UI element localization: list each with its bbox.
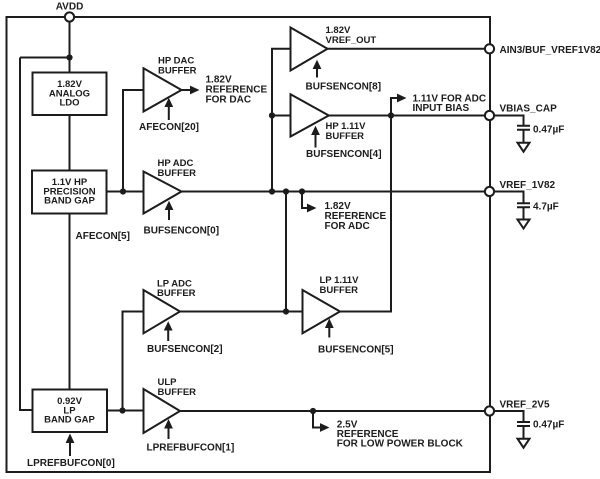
wire bus down to LP ADC output net [285,192,287,312]
svg-text:4.7µF: 4.7µF [533,202,559,213]
svg-text:BUFSENCON[8]: BUFSENCON[8] [306,82,382,93]
pin VREF_2V5 [485,400,550,416]
bandgap U3 0.92V LP BAND GAP [33,390,108,433]
svg-text:BUFSENCON[5]: BUFSENCON[5] [318,345,394,356]
label 2.5V REFERENCE FOR LOW POWER BLOCK [337,420,464,450]
junction LP ADC output bus [283,308,289,314]
svg-text:BAND GAP: BAND GAP [44,415,95,426]
svg-text:LPREFBUFCON[0]: LPREFBUFCON[0] [27,458,115,469]
svg-text:BUFFER: BUFFER [158,168,197,179]
control arrow BUFSENCON[8] [306,60,382,93]
op-amp buffer LP ADC BUFFER [144,278,196,333]
bandgap U2 1.1V HP PRECISION BAND GAP [32,171,107,214]
control arrow AFECON[20] [139,98,199,133]
junction VREF_1V82 ADC reference branch [299,188,305,194]
svg-text:BUFFER: BUFFER [158,65,197,76]
svg-text:FOR DAC: FOR DAC [206,95,252,106]
op-amp buffer LP 1.11V BUFFER [303,275,360,333]
svg-text:BUFSENCON[0]: BUFSENCON[0] [144,226,220,237]
wire VREF_2V5 net to pin [180,410,485,412]
label 1.82V REFERENCE FOR ADC [325,201,387,232]
svg-text:AFECON[20]: AFECON[20] [139,122,199,133]
capacitor C1 0.47uF [517,125,564,136]
svg-text:BUFFER: BUFFER [158,387,197,398]
svg-text:AIN3/BUF_VREF1V82: AIN3/BUF_VREF1V82 [500,45,600,56]
wire AVDD branch to left bus [20,57,70,59]
svg-text:0.47µF: 0.47µF [533,125,564,136]
svg-text:LDO: LDO [59,98,79,109]
wire VREF_1V82 to capacitor C2 [494,192,523,204]
svg-text:LPREFBUFCON[1]: LPREFBUFCON[1] [147,443,235,454]
wire branch arrow 1.82V reference for ADC [302,192,317,213]
wire capacitor C3 to ground [523,426,525,439]
ground below C1 [518,143,530,152]
svg-text:BUFSENCON[4]: BUFSENCON[4] [306,149,382,160]
ground below C3 [518,439,530,448]
svg-text:VREF_OUT: VREF_OUT [326,35,377,46]
ground below C2 [518,220,530,229]
wire capacitor C1 to ground [523,130,525,143]
wire LDO to HP band gap [69,115,71,171]
control arrow LPREFBUFCON[1] [147,419,235,454]
svg-text:AVDD: AVDD [56,2,84,13]
outer AFE block boundary [7,17,491,472]
svg-text:BUFFER: BUFFER [326,131,365,142]
junction VREF_1V82 to upper buffers bus [269,188,275,194]
svg-text:BUFFER: BUFFER [320,285,359,296]
wire LP ADC buffer output to LP 1.11V input [180,311,303,313]
svg-text:BAND GAP: BAND GAP [44,196,95,207]
junction LP band gap output [119,407,125,413]
svg-text:BUFSENCON[2]: BUFSENCON[2] [147,344,223,355]
junction band gap output [120,188,126,194]
label AFECON[5] [76,231,130,242]
wire branch arrow 1.11V for ADC input bias [391,94,407,116]
wire AVDD vertical feed [69,17,71,73]
junction VREF_1V82 to LP bus [283,188,289,194]
svg-text:BUFFER: BUFFER [157,288,196,299]
svg-text:0.47µF: 0.47µF [533,420,564,431]
op-amp buffer HP ADC BUFFER [144,158,197,214]
capacitor C2 4.7uF [517,202,559,213]
wire bus up to VREF_OUT buffer [272,49,291,192]
junction 2.5V reference branch [310,408,316,414]
wire HP band gap down to LP band gap [69,214,71,390]
wire branch arrow 2.5V reference for low power block [313,411,330,432]
label 1.11V FOR ADC INPUT BIAS [413,93,487,114]
control arrow BUFSENCON[5] [318,318,394,355]
junction bus to HP 1.11V buffer input [269,112,275,118]
wire bus to HP DAC buffer input [123,90,144,192]
control arrow BUFSENCON[2] [147,321,223,355]
svg-text:INPUT BIAS: INPUT BIAS [413,103,470,114]
wire bus down to LP 1.11V buffer output [340,116,391,312]
junction AVDD branch [66,54,72,60]
svg-text:VREF_1V82: VREF_1V82 [500,180,556,191]
svg-text:FOR LOW POWER BLOCK: FOR LOW POWER BLOCK [337,439,464,450]
pin AIN3/BUF_VREF1V82 [485,44,600,56]
control arrow BUFSENCON[4] [306,126,382,160]
svg-text:VREF_2V5: VREF_2V5 [500,400,550,411]
wire VBIAS net to pin [329,115,485,117]
wire HP band gap output to HP ADC buffer [106,191,144,193]
control arrow LPREFBUFCON[0] [27,434,115,470]
pin AVDD [56,2,84,22]
control arrow BUFSENCON[0] [144,201,220,237]
pin VREF_1V82 [485,180,556,196]
op-amp buffer HP DAC BUFFER [144,56,197,112]
op-amp buffer HP 1.11V BUFFER [291,94,367,142]
wire VBIAS_CAP to capacitor C1 [494,116,523,126]
svg-text:FOR ADC: FOR ADC [325,221,370,232]
wire LP band gap output to ULP buffer [107,410,144,412]
wire VREF_OUT to AIN3 pin [328,48,486,50]
wire branch to HP 1.11V buffer input [272,115,291,117]
capacitor C3 0.47uF [517,420,564,431]
regulator U1 1.82V ANALOG LDO [33,73,107,116]
wire left AVDD bus down to LP band gap [20,58,32,411]
wire LP ADC input bus [123,312,144,411]
op-amp buffer ULP BUFFER [144,377,197,433]
wire capacitor C2 to ground [523,208,525,220]
wire HP DAC buffer output arrow [182,86,200,95]
pin VBIAS_CAP [485,104,557,121]
label 1.82V REFERENCE FOR DAC [206,75,268,106]
svg-text:VBIAS_CAP: VBIAS_CAP [500,104,558,115]
junction VBIAS to LP 1.11V bus [388,112,394,118]
svg-text:AFECON[5]: AFECON[5] [76,231,130,242]
op-amp buffer VREF_OUT 1.82V [291,25,377,71]
wire VREF_1V82 net [182,191,486,193]
wire VREF_2V5 to capacitor C3 [494,411,523,422]
